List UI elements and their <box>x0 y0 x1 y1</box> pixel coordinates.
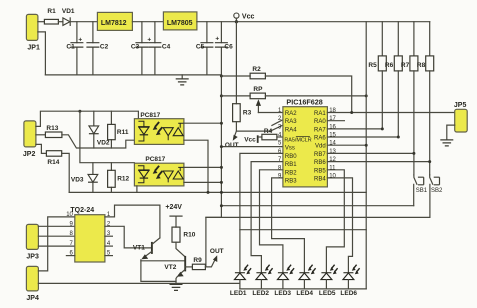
wire to R2 <box>221 75 250 77</box>
svg-text:VD2: VD2 <box>97 140 110 147</box>
ground symbol at JP5 <box>440 140 453 146</box>
LED rail bottom <box>240 288 366 290</box>
wire VT1 emitter to VT2 base <box>141 260 185 262</box>
svg-text:+: + <box>215 35 219 42</box>
regulator LM7812 <box>97 12 132 30</box>
wire relay pin2 to VT1 base <box>105 226 152 248</box>
node RP left <box>220 94 223 97</box>
svg-text:OUT: OUT <box>210 248 224 255</box>
diode VD3 <box>71 163 98 193</box>
wire JP1 pin2 down to ground rail <box>38 32 46 75</box>
wire pin18 RA1 to JP5 <box>327 112 454 114</box>
wire pin13 RB7 to R7 column / SB1 <box>327 71 414 175</box>
wire opto2 pin4 to ground column <box>184 166 222 168</box>
svg-text:RB3: RB3 <box>285 178 297 184</box>
wire pin15 RA6 to R6 column <box>327 71 398 137</box>
svg-text:R1: R1 <box>47 8 56 15</box>
svg-text:JP2: JP2 <box>23 151 36 158</box>
svg-text:RA6: RA6 <box>314 136 326 142</box>
svg-text:RB0: RB0 <box>285 154 297 160</box>
svg-text:R9: R9 <box>193 257 202 264</box>
wire RP right to Vcc column <box>265 95 366 97</box>
svg-text:RB7: RB7 <box>314 152 326 158</box>
wire JP4 pinA up to relay pin10 <box>38 217 74 271</box>
wire opto2 pin3 to ground column <box>184 181 222 183</box>
svg-text:C2: C2 <box>100 43 109 50</box>
svg-text:R6: R6 <box>385 62 394 69</box>
optocoupler U2 PC817 <box>134 156 184 186</box>
resistor R7 <box>401 22 418 71</box>
wire pin10 RB4 to LED6 <box>327 178 352 273</box>
slash stub pin3 <box>270 126 282 131</box>
svg-text:JP3: JP3 <box>26 253 39 260</box>
svg-text:+: + <box>78 36 82 43</box>
svg-text:C6: C6 <box>224 43 233 50</box>
capacitor C1 <box>66 22 83 75</box>
ground symbol under LM7805 <box>176 75 189 85</box>
svg-text:R7: R7 <box>401 62 410 69</box>
wire rail SB/ground y192 <box>69 191 366 193</box>
svg-text:RA2: RA2 <box>285 111 297 117</box>
resistor R9 <box>192 257 205 270</box>
wire JP2 pinB to R13 <box>36 134 46 136</box>
power node Vcc <box>234 13 255 23</box>
resistor R13 <box>45 125 62 138</box>
wire JP5 pin2 to ground <box>447 125 455 140</box>
svg-text:R12: R12 <box>117 175 129 182</box>
svg-text:LED1: LED1 <box>230 290 247 297</box>
svg-text:R4: R4 <box>264 128 273 135</box>
connector JP5 <box>454 102 467 132</box>
svg-text:LED3: LED3 <box>274 290 291 297</box>
wire VT2 to R9 <box>185 266 192 268</box>
relay TQ2-24 <box>66 207 111 262</box>
wire pin11 RB5 to LED5 <box>326 170 344 273</box>
capacitor C5 <box>196 22 214 75</box>
svg-text:RA3: RA3 <box>285 119 297 125</box>
wire relay pin5 stub <box>105 255 113 257</box>
svg-text:LED2: LED2 <box>252 290 269 297</box>
wire Vcc down to R3 <box>235 22 237 104</box>
wire RP wiper to pin1 <box>258 112 283 114</box>
wire pin16 RA7 to R5 column <box>327 71 382 129</box>
svg-text:OUT: OUT <box>225 142 239 149</box>
slash stub pin2 <box>272 120 282 125</box>
LED3 <box>274 265 294 298</box>
transistor VT1 <box>133 205 160 259</box>
capacitor C4 <box>147 22 170 75</box>
wire R1 to VD1 <box>58 21 63 23</box>
wire Vcc column to pin14 Vdd and down to LED rail <box>365 22 367 289</box>
ground rail under caps <box>45 74 221 76</box>
resistor R5 <box>368 22 386 71</box>
svg-text:JP4: JP4 <box>26 295 39 302</box>
power +24V <box>165 204 182 227</box>
svg-text:RB6: RB6 <box>314 160 326 166</box>
connector JP3 <box>26 224 39 260</box>
svg-text:RA4: RA4 <box>285 127 297 133</box>
svg-text:RB2: RB2 <box>285 170 297 176</box>
svg-text:R5: R5 <box>368 62 377 69</box>
svg-text:PC817: PC817 <box>140 112 160 119</box>
wire ground column x221 <box>206 75 222 267</box>
svg-text:R14: R14 <box>47 159 59 166</box>
svg-text:10: 10 <box>66 212 73 218</box>
svg-text:VT2: VT2 <box>164 264 176 271</box>
svg-text:SB1: SB1 <box>416 188 428 194</box>
svg-text:VT1: VT1 <box>133 244 145 251</box>
wire LM7812 to LM7805 <box>132 21 163 23</box>
LED1 <box>230 265 251 298</box>
svg-text:R2: R2 <box>252 66 261 73</box>
svg-text:RB5: RB5 <box>314 168 326 174</box>
svg-text:RA1: RA1 <box>314 111 326 117</box>
switch SB1 <box>414 175 428 206</box>
connector JP1 <box>26 14 40 51</box>
svg-text:SB2: SB2 <box>431 188 443 194</box>
wire VD1 to LM7812 <box>70 21 97 23</box>
wire opto2 pin2 drop to rail192 <box>136 186 138 193</box>
svg-text:LED6: LED6 <box>340 290 357 297</box>
resistor R3 <box>233 104 252 122</box>
resistor R12 <box>108 163 130 193</box>
svg-text:RA5/MCLR: RA5/MCLR <box>284 137 311 143</box>
optocoupler U1 PC817 <box>134 112 184 144</box>
wire pin17 stub <box>327 120 344 122</box>
svg-text:+: + <box>147 36 151 43</box>
svg-text:R11: R11 <box>117 129 129 136</box>
wire opto1 pin4 to ground column <box>184 122 222 124</box>
svg-text:C4: C4 <box>162 43 171 50</box>
svg-text:R3: R3 <box>243 109 252 116</box>
resistor R1 <box>44 8 58 24</box>
power symbol Vcc at R4 <box>244 135 262 143</box>
resistor R6 <box>385 22 402 71</box>
wire JP2 pinA2 down to opto2 top rail <box>80 111 134 162</box>
wire R2 right to pin18 column <box>265 76 351 113</box>
svg-text:Vss: Vss <box>285 146 295 152</box>
wire pin7 RB1 to LED2 <box>251 162 283 273</box>
wire rail y217 <box>206 216 430 218</box>
connector JP2 <box>23 121 36 158</box>
wire Vss pin5 to ground column <box>221 146 283 148</box>
potentiometer RP <box>250 86 265 113</box>
svg-text:Vcc: Vcc <box>244 137 256 144</box>
svg-text:JP5: JP5 <box>454 102 467 109</box>
svg-text:RA0: RA0 <box>314 119 326 125</box>
svg-text:C3: C3 <box>131 43 140 50</box>
IC PIC16F628 <box>278 97 336 186</box>
wire relay pin4 stub <box>105 245 113 247</box>
wire R3 bottom junction <box>236 122 270 131</box>
wire VT2 emitter to ground stem <box>176 276 177 284</box>
wire R14 right down to rail192 <box>62 153 70 192</box>
connector JP4 <box>26 266 39 302</box>
svg-text:TQ2-24: TQ2-24 <box>70 207 94 214</box>
wire JP1 to R1 <box>38 21 45 23</box>
transistor VT2 <box>164 256 185 277</box>
wire relay pin3 stub <box>105 235 113 237</box>
wire pin6 RB0 to LED1 <box>240 153 283 272</box>
resistor R8 <box>417 22 434 71</box>
wire R10 bottom to VT2 collector <box>176 242 185 257</box>
LED4 <box>296 265 315 298</box>
capacitor C6 <box>215 22 233 75</box>
svg-text:VD3: VD3 <box>71 176 84 183</box>
svg-text:+24V: +24V <box>165 204 182 211</box>
svg-text:RP: RP <box>253 86 263 93</box>
wire R4 to pin4 <box>277 136 283 138</box>
wire pin8 RB2 to LED3 <box>260 170 283 273</box>
svg-text:R13: R13 <box>46 125 58 132</box>
wires JP3 to relay pins 9 8 7 <box>38 226 74 246</box>
LED6 <box>340 265 359 298</box>
svg-text:LED5: LED5 <box>319 290 336 297</box>
svg-text:VD1: VD1 <box>62 8 75 15</box>
svg-text:R10: R10 <box>183 231 195 238</box>
svg-text:R8: R8 <box>417 62 426 69</box>
wire R13 right diagonal to opto1 bottom rail <box>62 135 134 148</box>
svg-text:C5: C5 <box>196 43 205 50</box>
wire LM7805 to Vcc node and right rail <box>197 21 430 23</box>
regulator LM7805 <box>163 12 197 30</box>
resistor R14 <box>46 151 61 166</box>
switch SB2 <box>430 175 443 218</box>
svg-text:LM7812: LM7812 <box>101 20 127 27</box>
svg-text:RA7: RA7 <box>314 127 326 133</box>
wire opto1 pin3 down to rail192 <box>184 140 208 192</box>
arrow OUT (up) <box>205 248 223 267</box>
svg-text:C1: C1 <box>66 43 75 50</box>
wire relay pin1 riser to rail205 <box>105 205 160 217</box>
wire branch rail y229 <box>240 229 366 231</box>
LED5 <box>319 265 338 298</box>
svg-text:JP1: JP1 <box>27 44 40 51</box>
svg-text:PC817: PC817 <box>145 156 165 163</box>
resistor R2 <box>250 66 265 79</box>
svg-text:Vcc: Vcc <box>242 13 255 20</box>
node R2 left <box>220 75 223 78</box>
svg-text:RB1: RB1 <box>285 162 297 168</box>
wire JP4 pinB to LED rail <box>38 282 240 284</box>
capacitor C3 <box>131 22 149 75</box>
wire pin9 RB3 to LED4 <box>272 178 305 273</box>
LED2 <box>252 265 272 298</box>
wire to RP <box>221 95 250 97</box>
svg-text:PIC16F628: PIC16F628 <box>286 97 322 106</box>
ground symbol under VT2 <box>170 284 183 290</box>
wire JP2 pinA up to opto1 top rail <box>36 111 138 126</box>
wire rail y205 right of ground column <box>221 205 413 207</box>
diode VD2 <box>89 111 110 148</box>
svg-text:LED4: LED4 <box>296 290 313 297</box>
wire relay pin6 stub <box>66 255 74 257</box>
svg-text:LM7805: LM7805 <box>167 20 193 27</box>
arrow OUT (down) <box>225 131 239 149</box>
svg-text:Vdd: Vdd <box>315 144 326 150</box>
wire pin12 RB6 to R8 column / SB2 <box>327 71 429 175</box>
resistor R11 <box>108 111 129 148</box>
wire VT1 emitter node down to ground <box>141 260 176 282</box>
wire JP2 pinC to R14 <box>36 144 47 153</box>
capacitor C2 <box>86 22 108 75</box>
resistor R10 <box>172 227 196 242</box>
diode VD1 <box>62 8 75 26</box>
svg-text:RB4: RB4 <box>314 176 326 182</box>
resistor R4 <box>262 128 277 140</box>
